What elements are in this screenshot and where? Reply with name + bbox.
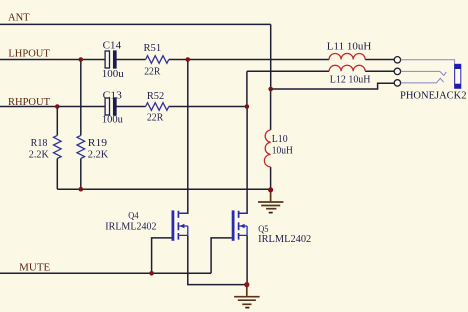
connector PHONEJACK2 pin 1 [394,57,400,63]
capacitor C13 [105,98,116,115]
svg-text:2.2K: 2.2K [88,149,109,160]
svg-text:22R: 22R [144,66,161,77]
wire L12 row horizontal [247,70,329,72]
svg-text:R51: R51 [144,43,162,54]
connector PHONEJACK2 pin 2 [394,68,400,74]
junction dot Q5 source/ground [244,282,249,287]
svg-text:Q4: Q4 [128,212,138,222]
svg-text:PHONEJACK2: PHONEJACK2 [400,90,467,101]
wire LHPOUT lead-in [0,59,105,61]
svg-text:RHPOUT: RHPOUT [8,97,51,108]
wire ANT horizontal [0,23,271,25]
junction dot LHPOUT/Q4 drain [186,57,191,62]
svg-text:C13: C13 [103,90,122,101]
svg-text:IRLML2402: IRLML2402 [105,222,156,233]
junction dot ground bus/R19 [79,187,84,192]
svg-text:10uH: 10uH [272,145,293,156]
wire MUTE to Q5 gate [211,238,232,273]
resistor R52 [146,103,169,111]
svg-text:2.2K: 2.2K [29,149,50,160]
svg-text:L11 10uH: L11 10uH [327,41,372,52]
wire node ANT to L10 top [270,89,272,130]
svg-text:LHPOUT: LHPOUT [8,49,50,60]
svg-text:L10: L10 [272,134,288,145]
wire ANT vertical drop [270,24,272,89]
wire R19 bottom [80,159,82,190]
wire Q4 source to ground node [188,235,247,284]
wire Q4 gate branch [152,238,172,273]
wire Q4 drain to LHPOUT [179,60,188,214]
junction dot MUTE/Q4 gate [149,271,154,276]
svg-text:100u: 100u [102,114,123,125]
inductor L10 [264,130,270,167]
resistor R51 [146,56,169,64]
wire L10 bottom [270,167,272,190]
junction dot ground bus/L10 [268,187,273,192]
svg-text:R52: R52 [147,91,164,102]
transistor Q4 [172,210,188,240]
svg-text:22R: 22R [147,112,164,123]
resistor R18 [54,135,62,158]
wire R19 top [80,60,82,136]
capacitor C14 [105,51,116,68]
wire C13 to R52 [116,106,145,108]
wire L12 branch vertical [246,71,248,106]
connector PHONEJACK2 pin 3 [394,80,400,86]
svg-text:ANT: ANT [8,13,30,24]
junction dot LHPOUT/R19 [79,57,84,62]
inductor L11 [329,53,365,59]
svg-text:IRLML2402: IRLML2402 [258,234,311,245]
wire R18 bottom [56,159,58,190]
wire R52 to node [169,106,247,108]
wire R51 to L11 [169,59,329,61]
ground symbol near L10 [258,190,283,213]
resistor R19 [77,135,85,158]
svg-text:R19: R19 [88,138,107,149]
wire Q5 source down [246,235,248,284]
svg-text:R18: R18 [31,138,48,149]
phonejack barrel [455,64,461,88]
wire RHPOUT lead-in [0,106,105,108]
wire ground bus R18 to L10 [57,188,270,190]
wire L12 to pin2 [365,70,394,72]
phonejack body outline [401,60,455,89]
wire MUTE horizontal [0,272,211,274]
junction dot ANT/sleeve/L10 [268,87,273,92]
wire C14 to R51 [116,59,145,61]
inductor L12 [329,65,365,71]
ground symbol near Q5 source [234,285,260,308]
wire sleeve net to phonejack pin3 [271,83,395,89]
wire L11 to pin1 [365,59,394,61]
transistor Q5 [232,210,247,240]
wire Q5 drain to RHPOUT node [239,107,247,214]
svg-text:C14: C14 [103,41,121,52]
junction dot RHPOUT/L12/Q5 [245,104,250,109]
wire R18 top [56,107,58,136]
svg-text:MUTE: MUTE [19,262,50,273]
junction dot RHPOUT/R18 [55,104,60,109]
svg-text:L12 10uH: L12 10uH [330,74,371,85]
svg-text:100u: 100u [102,69,124,80]
